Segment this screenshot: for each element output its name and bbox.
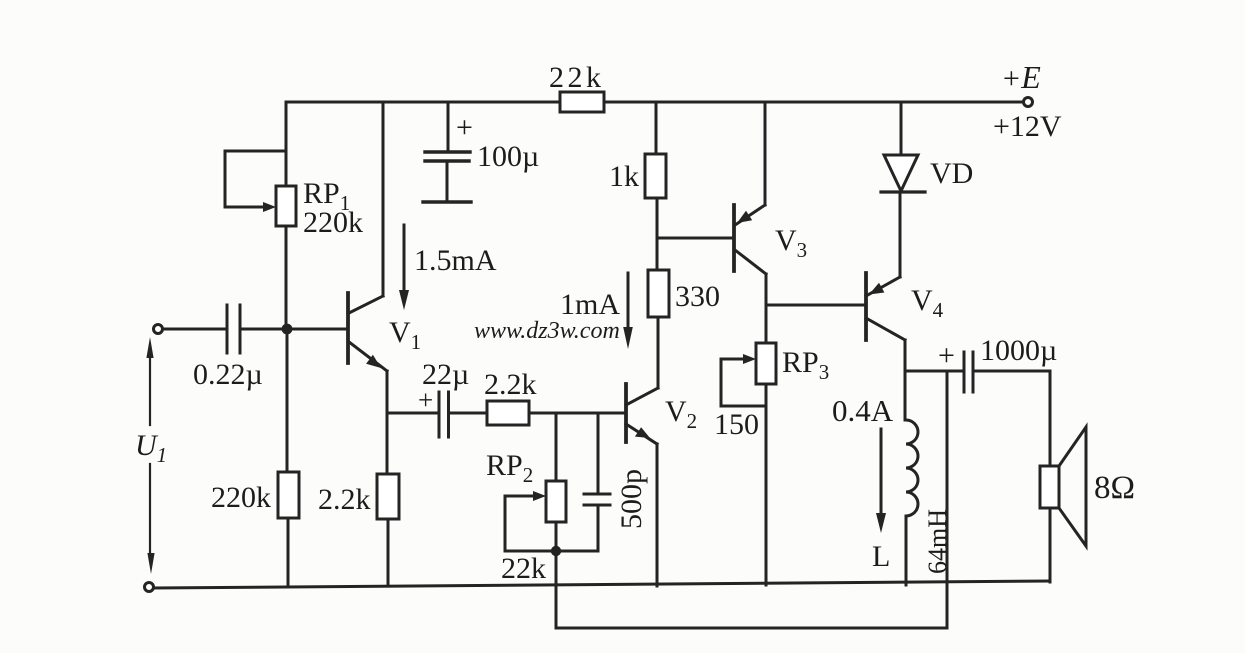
node 1mA current arrow — [623, 273, 633, 349]
node junction base/bias — [282, 324, 293, 335]
svg-text:330: 330 — [675, 280, 720, 313]
transistor V3 — [734, 205, 766, 274]
node 1.5mA current arrow — [399, 225, 409, 310]
svg-text:+12V: +12V — [993, 110, 1062, 143]
wire input to coupling cap — [163, 328, 226, 331]
resistor 2.2k series — [487, 401, 529, 425]
wire emitter branch to 22u — [387, 412, 438, 415]
svg-text:0.22µ: 0.22µ — [193, 358, 263, 391]
resistor RP2 — [546, 481, 566, 522]
capacitor 0.22u — [227, 305, 240, 353]
speaker 8 ohm — [1040, 427, 1086, 546]
svg-text:V4: V4 — [911, 284, 944, 322]
transistor V2 — [626, 384, 658, 444]
wire 22u to 2.2k series — [449, 412, 487, 415]
wire bottom ground rail — [153, 581, 1050, 588]
capacitor 22u — [439, 392, 449, 437]
node RP2 junction — [551, 546, 561, 556]
wire RP2 top lead — [555, 414, 558, 481]
svg-text:220k: 220k — [303, 206, 363, 239]
svg-text:2.2k: 2.2k — [484, 368, 537, 401]
wire coil bottom to ground rail — [905, 516, 908, 585]
wire 330 to V2 collector — [657, 317, 660, 388]
wire RP1 bottom to input node — [285, 226, 288, 329]
wire left drop from rail to RP1 — [285, 102, 288, 186]
resistor 2.2k emitter — [377, 474, 399, 519]
wire VD top lead — [900, 102, 903, 155]
wire output branch to 1000u — [906, 370, 964, 373]
svg-text:220k: 220k — [211, 481, 271, 514]
svg-text:64mH: 64mH — [923, 509, 952, 574]
svg-text:V2: V2 — [665, 395, 697, 433]
wire RP2 bottom lead — [555, 522, 558, 551]
resistor RP1 (pot body) — [276, 186, 296, 226]
svg-text:VD: VD — [930, 157, 973, 190]
wire RP3 wiper loop — [721, 359, 766, 406]
wire feedback lower loop — [556, 371, 947, 628]
svg-text:www.dz3w.com: www.dz3w.com — [474, 318, 620, 344]
svg-text:1k: 1k — [609, 160, 639, 193]
wire 1000u to speaker — [974, 371, 1050, 466]
svg-text:100µ: 100µ — [477, 140, 539, 173]
svg-text:8Ω: 8Ω — [1094, 470, 1135, 506]
transistor V1 — [348, 102, 387, 371]
svg-text:500p: 500p — [615, 469, 648, 529]
svg-text:+: + — [418, 385, 433, 415]
svg-text:L: L — [872, 540, 890, 573]
svg-text:2.2k: 2.2k — [318, 483, 371, 516]
inductor L coil — [906, 420, 918, 516]
svg-text:+: + — [938, 339, 955, 372]
svg-text:+E: +E — [1001, 59, 1041, 95]
svg-text:RP3: RP3 — [782, 346, 829, 384]
node U1 measure arrows — [146, 337, 154, 574]
svg-text:22k: 22k — [549, 61, 605, 94]
capacitor 1000u — [964, 352, 973, 392]
wire V3 emitter to rail — [764, 102, 767, 205]
wire 2.2k to ground rail — [387, 519, 390, 586]
wire V3 collector down / V4 base tee — [766, 274, 864, 343]
transistor V4 — [866, 273, 905, 340]
wire V1 emitter down — [386, 371, 389, 474]
svg-text:1.5mA: 1.5mA — [414, 244, 497, 277]
node input terminal top — [154, 325, 163, 334]
resistor RP3 — [756, 343, 776, 384]
svg-text:1mA: 1mA — [560, 288, 620, 321]
wire V2 emitter to ground rail — [656, 444, 659, 586]
wire RP3 bottom to ground rail — [765, 384, 768, 585]
svg-text:U1: U1 — [135, 429, 167, 467]
resistor 330 — [648, 270, 669, 317]
wire 1k bottom / V3 base tee — [657, 198, 733, 270]
wire V4 collector down to coil — [904, 340, 907, 420]
wire RP1 wiper loop to top — [225, 151, 286, 207]
svg-text:0.4A: 0.4A — [832, 393, 894, 428]
wire top rail left segment — [286, 101, 560, 104]
resistor 1k — [645, 154, 666, 198]
svg-text:1000µ: 1000µ — [980, 334, 1057, 367]
node +E supply terminal — [1024, 98, 1033, 107]
wire RP2 wiper loop — [505, 496, 556, 551]
svg-text:RP2: RP2 — [486, 449, 533, 487]
svg-text:V1: V1 — [389, 316, 421, 354]
capacitor 500p — [584, 494, 610, 505]
node input terminal bottom — [145, 583, 154, 592]
wire junction to 500p bottom — [556, 550, 598, 553]
wire 220k to ground rail — [287, 518, 290, 586]
wire cap to V1 base — [241, 328, 347, 331]
capacitor 100u — [423, 102, 471, 202]
wire VD cathode to V4 — [899, 192, 902, 277]
wire bias node down to 220k — [286, 329, 289, 472]
resistor 22k rail — [560, 92, 604, 112]
svg-text:150: 150 — [714, 408, 759, 441]
node 0.4A current arrow — [876, 429, 886, 533]
wire 1k top — [655, 102, 658, 154]
wire 2.2k to V2 base — [529, 412, 625, 415]
wire speaker to ground rail — [1049, 508, 1052, 582]
wire 500p top lead — [597, 414, 600, 494]
svg-text:V3: V3 — [775, 224, 807, 262]
wire 500p bottom lead — [597, 505, 600, 551]
svg-text:+: + — [456, 111, 473, 144]
wire top rail right segment — [604, 101, 1023, 104]
svg-text:22k: 22k — [501, 552, 546, 585]
diode VD — [881, 155, 925, 192]
resistor 220k — [278, 472, 299, 518]
